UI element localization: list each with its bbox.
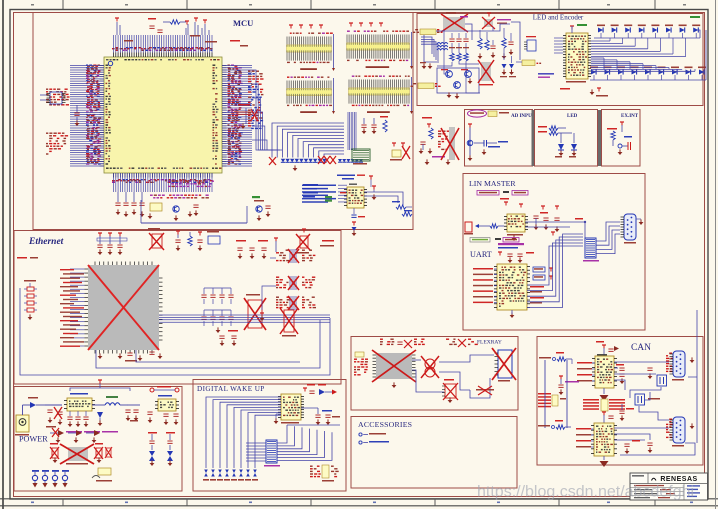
eth grounds under PHY xyxy=(98,352,163,362)
zener D2 xyxy=(97,412,103,426)
X'd resistor left xyxy=(50,443,59,463)
svg-text:Ethernet: Ethernet xyxy=(28,237,64,247)
MCU top pin ticks xyxy=(114,53,213,58)
DC jack J5 xyxy=(15,415,29,436)
encoder left header J6 xyxy=(413,29,443,35)
DB9 P1 xyxy=(621,214,637,244)
CAN wires lower xyxy=(614,310,697,455)
bottom ruler xyxy=(0,499,718,506)
flexray transceiver X'd xyxy=(372,350,416,388)
flexray bottom component X'd xyxy=(442,379,458,403)
gray divider bar 1 xyxy=(532,110,535,166)
section box LED small xyxy=(535,110,598,167)
LED row 1 xyxy=(597,25,700,39)
U3 below parts xyxy=(351,208,365,236)
CAN left VCC mid xyxy=(558,376,579,395)
header PIN45-PIN88 xyxy=(287,77,336,115)
eth top cluster 2 xyxy=(175,231,220,251)
MCU right pin ticks xyxy=(222,66,227,167)
LED row 2 xyxy=(590,67,706,81)
regulator U12 xyxy=(64,393,95,411)
LIN transceiver U9 xyxy=(504,214,528,236)
flexray wires xyxy=(412,355,494,398)
DB9 ground xyxy=(636,219,643,225)
legend item 1 xyxy=(359,433,386,436)
LIN label row 2 xyxy=(470,238,519,243)
CAN U16 input xyxy=(538,420,571,429)
MCU top pin label band xyxy=(112,47,213,51)
flexray left connector labels xyxy=(354,352,368,376)
LED small diodes xyxy=(555,133,577,158)
cluster between MCU and AD INPUT xyxy=(419,117,459,165)
U3 right wiring xyxy=(364,186,412,216)
UART IC U10 MAX232 xyxy=(494,264,530,310)
capacitor C-left xyxy=(74,105,79,126)
section box Ethernet xyxy=(14,231,341,385)
right edge line xyxy=(715,0,717,509)
section box LED and Encoder xyxy=(417,14,703,106)
wire runs left half xyxy=(436,22,520,93)
title block row 2 xyxy=(630,485,684,488)
CAN caps mid xyxy=(616,364,653,384)
section box DIGITAL WAKE UP xyxy=(193,380,346,492)
UART left labels xyxy=(473,268,497,303)
power out labels xyxy=(150,386,179,392)
eth right caps bank xyxy=(201,288,233,333)
svg-text:CAN: CAN xyxy=(631,343,651,353)
AD pot header xyxy=(488,111,509,117)
power mid grounds xyxy=(56,437,97,443)
bundle J4 to DB9 xyxy=(596,222,620,254)
AD pot circuit xyxy=(467,124,508,161)
PHY top ticks xyxy=(95,262,152,266)
LIN supplies xyxy=(500,198,559,210)
U3 left net label rows xyxy=(302,185,347,203)
eth far-left resistor stack xyxy=(24,280,37,320)
flexray top row2 xyxy=(446,339,478,348)
ethernet PHY X mark xyxy=(88,265,159,350)
U3 top labels xyxy=(337,175,373,188)
eth bottom long wires xyxy=(20,288,330,375)
MCU left connector J-small xyxy=(40,92,66,104)
svg-text:EX.INT: EX.INT xyxy=(621,114,639,119)
UART right parts xyxy=(530,267,553,304)
power input diode xyxy=(23,397,46,415)
X'd resistor right xyxy=(94,443,112,463)
svg-text:DIGITAL WAKE UP: DIGITAL WAKE UP xyxy=(197,385,265,393)
MCU top pin wires xyxy=(114,35,213,53)
CAN U15 left labels xyxy=(577,362,595,382)
DWU right caps xyxy=(301,408,340,425)
section box AD INPUT xyxy=(465,110,533,167)
X'd gray vertical part xyxy=(478,60,494,85)
eth resistor array group 1 xyxy=(276,249,315,263)
MCU right pin label band xyxy=(228,65,243,165)
connector block below PIN89 xyxy=(352,149,370,165)
LED small resistors xyxy=(538,126,572,135)
MCU bottom pin label band xyxy=(112,179,213,183)
eth resistor array group 3 xyxy=(276,296,316,310)
MCU bottom pin ticks xyxy=(114,173,213,178)
CAN DB9 upper xyxy=(666,351,694,381)
CAN U16 ground xyxy=(600,456,609,467)
eth resistor array group 2 xyxy=(276,276,315,290)
X'd small part top-mid xyxy=(482,13,511,29)
svg-text:FLEXRAY: FLEXRAY xyxy=(477,340,502,346)
LED row 2 bus wires xyxy=(590,30,706,80)
wires into U8 xyxy=(554,38,563,53)
wire bundle right of MCU down xyxy=(252,70,282,150)
CAN split term xyxy=(619,404,634,421)
LED driver IC U8 xyxy=(563,33,591,83)
svg-text:RENESAS: RENESAS xyxy=(660,476,697,483)
labels right top xyxy=(460,16,700,18)
LIN label row xyxy=(477,191,528,196)
flexray X'd label xyxy=(476,386,494,395)
title block frame xyxy=(630,473,708,500)
title block renesas row xyxy=(630,473,708,484)
PHY left pin ticks xyxy=(85,269,89,346)
eth top X part 2 xyxy=(295,229,310,254)
MCU bottom pin wires xyxy=(114,173,213,192)
CAN choke 1 xyxy=(657,375,667,386)
CAN ground U15 xyxy=(600,388,609,401)
MCU left pin wires xyxy=(70,66,104,167)
MCU left pin ticks xyxy=(100,66,105,167)
svg-text:https://blog.csdn.net/abcdefgh: https://blog.csdn.net/abcdefghi xyxy=(477,484,694,501)
VCC above U8 xyxy=(570,24,587,33)
grounds row encoder xyxy=(420,62,459,99)
PHY left wires xyxy=(70,269,85,346)
jumper part xyxy=(92,468,112,482)
ethernet PHY U11 body xyxy=(88,265,159,350)
DWU bottom-right label arrays xyxy=(310,465,339,482)
svg-text:LED: LED xyxy=(567,114,578,119)
eth X'd magnetics xyxy=(244,294,266,330)
top mid connector xyxy=(524,36,536,51)
DWU IC U14 xyxy=(278,394,304,424)
CAN choke 2 xyxy=(635,394,660,405)
cluster right of MCU - caps and X xyxy=(237,104,258,129)
CAN DB9 lower xyxy=(666,417,694,447)
DWU VCC parts xyxy=(303,384,337,395)
header PIN89-PIN132 xyxy=(349,76,414,115)
LIN node dots xyxy=(551,218,586,236)
decoupling caps right of bundle xyxy=(361,116,388,134)
CAN VCC top xyxy=(596,341,619,356)
flexray transformer X'd xyxy=(421,356,439,378)
UART-DB9 wire bundle xyxy=(527,234,583,307)
encoder bottom header J7 xyxy=(411,83,441,89)
flexray top caps row xyxy=(380,339,425,349)
title block row 4 xyxy=(630,493,684,496)
CAN transceiver U15 xyxy=(592,354,617,388)
UART VCC caps xyxy=(498,252,534,263)
header supplies xyxy=(289,23,383,29)
header PIN133-PIN176 xyxy=(347,31,414,70)
svg-text:LIN MASTER: LIN MASTER xyxy=(469,179,516,188)
UART top label xyxy=(498,243,524,249)
DWU connector hatch xyxy=(264,440,280,467)
page left edge bar xyxy=(2,0,4,509)
section box POWER xyxy=(14,387,182,492)
gray divider bar 2 xyxy=(598,110,601,166)
section box LIN MASTER xyxy=(463,174,645,331)
EXINT circuit xyxy=(607,122,632,155)
cluster below-right of MCU - transistor xyxy=(247,196,271,223)
title block row 5 xyxy=(634,497,670,498)
LIN caps xyxy=(533,212,559,232)
right RC and diodes xyxy=(500,28,516,77)
post-inductor caps xyxy=(125,405,140,422)
renesas logo xyxy=(652,476,698,483)
CAN transceiver U16 xyxy=(591,412,617,456)
section box EXINT xyxy=(602,110,641,167)
PHY left labels xyxy=(60,269,84,347)
mid-right header J8 xyxy=(516,60,541,66)
eth top cluster 1 xyxy=(97,233,127,255)
power testpoints xyxy=(32,470,69,488)
UART ground xyxy=(510,310,515,318)
CAN U16 left labels xyxy=(576,428,594,448)
MCU inner pin name bands xyxy=(106,59,222,169)
PHY right pin ticks xyxy=(159,278,163,340)
encoder X'd part xyxy=(441,12,468,32)
RC branches mid xyxy=(449,33,469,61)
section box ACCESSORIES xyxy=(351,417,517,489)
MCU U1 body xyxy=(104,57,222,173)
svg-text:POWER: POWER xyxy=(19,435,48,444)
MCU left outer labels xyxy=(46,89,70,155)
magenta port label xyxy=(468,110,487,117)
power right zeners xyxy=(148,432,175,466)
encoder label oval xyxy=(538,73,554,78)
section box MCU xyxy=(33,13,413,230)
encoder wire mesh xyxy=(421,24,472,63)
grounds below U8 xyxy=(560,88,608,97)
PHY bottom ticks xyxy=(95,350,152,354)
LIN input connector xyxy=(464,222,504,235)
eth top label xyxy=(320,240,334,247)
transistor box xyxy=(437,30,479,98)
header PIN1-PIN44 xyxy=(287,33,336,72)
CAN wires upper xyxy=(614,362,669,398)
power mid diode row xyxy=(50,428,118,437)
CAN lower caps xyxy=(624,440,652,454)
eth left small labels xyxy=(17,257,38,259)
LED row 1 bus wires xyxy=(591,30,700,57)
connector hatch J4 xyxy=(583,238,599,262)
title block right cell xyxy=(684,484,700,501)
MCU blue net labels bottom-right xyxy=(303,184,318,198)
section box FLEXRAY xyxy=(351,337,518,411)
MCU top tall wires and supplies xyxy=(115,18,248,47)
power top rail xyxy=(70,380,130,391)
power caps X'd xyxy=(45,405,63,428)
svg-text:ACCESSORIES: ACCESSORIES xyxy=(358,420,412,429)
small part with X right xyxy=(390,143,410,161)
svg-text:UART: UART xyxy=(470,250,492,259)
eth top cluster 3 xyxy=(236,238,278,259)
flexray X'd connector right xyxy=(492,348,516,382)
CAN vertical bus xyxy=(545,360,567,428)
svg-text:LED and Encoder: LED and Encoder xyxy=(533,14,584,22)
eth mid caps bottom xyxy=(219,330,238,346)
MCU left pin label band xyxy=(86,65,101,165)
eth bus to right xyxy=(159,315,330,322)
sub-IC U3 bottom right of MCU xyxy=(344,184,367,209)
MCU right pin wires xyxy=(222,66,252,167)
inductor L3 xyxy=(92,396,128,405)
DWU left bus entry xyxy=(246,443,266,461)
mid vertical resistors xyxy=(478,30,496,59)
title block row 3 xyxy=(630,489,684,492)
section box CAN xyxy=(537,337,703,466)
U13 caps xyxy=(147,412,178,425)
CAN left label rows xyxy=(538,393,566,407)
diode row with X marks xyxy=(269,156,363,171)
bus fan from PIN45 header to diode row xyxy=(272,123,344,158)
svg-text:MCU: MCU xyxy=(233,18,253,28)
eth top X part 1 xyxy=(148,228,164,250)
vertical bundle from PIN89 header xyxy=(348,112,356,150)
MCU pin1 mark xyxy=(108,61,112,65)
DWU ground under IC xyxy=(274,414,281,424)
reg caps and grounds xyxy=(67,411,88,427)
eth ra wires xyxy=(260,258,276,321)
chokes L1-L3 xyxy=(437,43,448,51)
CAN U15 input xyxy=(539,352,572,364)
LIN wires right xyxy=(512,222,585,241)
top ruler ticks xyxy=(31,0,686,9)
eth right X'd part 2 xyxy=(280,308,298,337)
CAN mid label block xyxy=(583,399,625,411)
DWU left wire fan xyxy=(203,397,281,481)
regulator U13 xyxy=(155,395,179,411)
long wire bottom MCU xyxy=(141,222,247,224)
legend item 2 xyxy=(359,441,389,444)
DWU connector wires xyxy=(277,425,340,460)
MCU below components xyxy=(115,181,214,224)
X'd shunt block xyxy=(60,444,94,465)
MCU right outer labels xyxy=(248,71,264,130)
